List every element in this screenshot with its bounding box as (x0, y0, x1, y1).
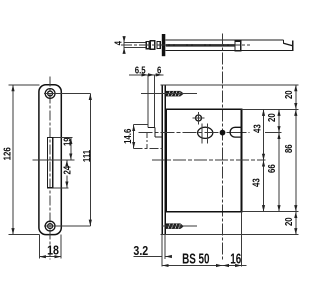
wire: extension plate top right (161, 84, 299, 86)
svg-text:19: 19 (62, 137, 73, 146)
wire: top-view break line (283, 40, 292, 50)
wire: top screw horizontal centre line to 111 dim (44, 93, 90, 95)
svg-text:20: 20 (283, 217, 294, 226)
node: dim BS 50 line (162, 265, 222, 267)
component: bottom fixing screw side view (162, 223, 197, 229)
svg-text:6: 6 (157, 65, 161, 76)
component: top fixing screw side view (141, 91, 197, 97)
node: fixing dot on backset line (220, 130, 226, 136)
wire: extension plate top left (9, 84, 40, 86)
wire: extension plate bottom left (9, 234, 40, 236)
svg-text:86: 86 (283, 144, 294, 153)
node: dim chain 20/66 (278, 109, 280, 211)
node: bottom screw hole (45, 221, 55, 231)
node: faceplate edge-on strip (162, 85, 165, 235)
node: dim 4 arrows (123, 37, 125, 52)
node: faceplate slot (48, 138, 53, 188)
wire: extension case top right (242, 108, 299, 110)
svg-text:6.5: 6.5 (135, 65, 146, 76)
node: dim 126 line (12, 85, 14, 235)
wire: extension case bottom right (242, 211, 299, 213)
svg-text:BS 50: BS 50 (182, 250, 209, 267)
node: dim 24 line (66, 160, 68, 188)
node: top-view nut blocks (146, 41, 160, 49)
svg-text:18: 18 (47, 244, 59, 258)
wire: dashed keyway level line (152, 159, 266, 161)
node: top-view faceplate bar (section) (162, 34, 166, 56)
node: dim 19 line (70, 138, 72, 160)
wire: top-view case bar outline (165, 40, 293, 51)
wire: 14.6 bottom extension (134, 147, 163, 149)
wire: extension slot bottom (54, 187, 69, 189)
wire: keyway horizontal line across plate (32, 159, 74, 161)
svg-text:3.2: 3.2 (133, 244, 148, 258)
node: lock case outline (166, 109, 241, 211)
wire: bottom extension plate inner face (164, 235, 166, 259)
svg-text:4: 4 (113, 41, 124, 45)
svg-text:20: 20 (266, 113, 277, 122)
wire: top-view centre line (121, 44, 250, 46)
svg-text:43: 43 (251, 178, 262, 187)
node: dim 16 line (223, 265, 247, 267)
node: dim chain 43/43 (263, 109, 265, 211)
svg-text:111: 111 (81, 150, 92, 162)
wire: faceplate vertical centre line (49, 77, 51, 260)
node: dim chain 20/86/20 (295, 85, 297, 235)
wire: 18 dim extension left (38, 235, 40, 259)
node: faceplate outline (39, 85, 61, 235)
svg-text:20: 20 (283, 90, 294, 99)
wire: 14.6 top extension (134, 124, 148, 126)
svg-text:16: 16 (230, 250, 241, 267)
wire: latch step outline left of plate (147, 75, 162, 148)
svg-text:126: 126 (2, 147, 13, 160)
wire: key row horizontal centre line (139, 132, 250, 134)
node: dim 6.5 and 6 line (129, 74, 164, 76)
node: dim 18 line (39, 256, 61, 258)
component: slotted hole (ellipse) (198, 124, 213, 144)
node: dim 111 line (89, 94, 91, 227)
wire: extension plate bottom right (161, 234, 299, 236)
wire: 18 dim extension right (60, 235, 62, 259)
svg-text:43: 43 (252, 124, 263, 133)
node: top-view end box (235, 41, 241, 51)
wire: extension slot top (54, 137, 73, 139)
wire: extension key row to chain B (265, 132, 282, 134)
wire: bottom extension case right (241, 212, 243, 267)
node: dim 3.2 leader and arrows (134, 256, 172, 258)
wire: bottom screw horizontal centre line to 111 dim (44, 225, 90, 227)
wire: bottom extension plate outer face (161, 235, 163, 267)
wire: top-view spindle/screw shank lines (124, 43, 146, 48)
svg-text:24: 24 (61, 166, 72, 175)
wire: backset vertical centre line (222, 34, 224, 262)
node: top-view inner dark band (166, 44, 235, 47)
svg-text:14.6: 14.6 (122, 129, 133, 144)
component: follower hole (193, 112, 205, 124)
component: right slot open to case edge (230, 127, 241, 137)
svg-text:66: 66 (266, 164, 277, 173)
node: dim 14.6 line (133, 125, 135, 149)
node: top screw hole (45, 89, 55, 99)
